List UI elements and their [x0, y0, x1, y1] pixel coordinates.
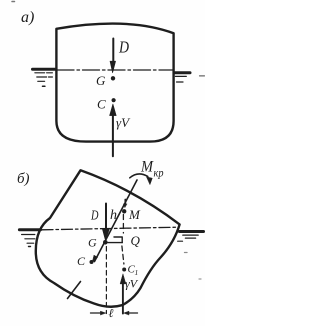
- buoyancy action line dashed M to Q: [122, 215, 124, 234]
- point C (figure b): [90, 260, 94, 264]
- tilted centerline through C G M: [95, 180, 138, 262]
- speck top edge: [12, 1, 15, 3]
- point M metacenter: [122, 209, 126, 213]
- svg-text:G: G: [88, 236, 97, 250]
- dashed line Q to C1: [122, 246, 124, 264]
- dashed drop line below G: [105, 247, 107, 314]
- svg-text:C: C: [97, 97, 106, 112]
- svg-text:D: D: [118, 38, 129, 57]
- heeling moment arc Mkr: [130, 174, 148, 178]
- hull outline (figure a): [56, 24, 173, 142]
- svg-text:М: М: [140, 159, 154, 176]
- svg-text:γV: γV: [125, 277, 139, 291]
- svg-text:ℓ: ℓ: [109, 306, 114, 320]
- point G (figure b): [103, 240, 108, 245]
- right angle mark at Q: [114, 237, 122, 243]
- svg-text:D: D: [90, 209, 98, 224]
- speck lower right: [199, 278, 201, 280]
- buoyancy force gammaV (figure a): [112, 115, 114, 157]
- dimension l left arrow: [91, 312, 102, 314]
- point C (figure a): [112, 98, 116, 102]
- point G (figure a): [111, 76, 115, 80]
- svg-text:γV: γV: [116, 115, 131, 130]
- water surface right (figure b): [179, 230, 203, 233]
- hatch right a: [175, 75, 186, 77]
- waterline dash-dot inside hull (figure a): [57, 69, 173, 71]
- buoyancy force gammaV (figure b): [122, 284, 124, 314]
- hull outline (figure b, heeled): [36, 170, 180, 306]
- svg-text:Q: Q: [131, 233, 141, 248]
- svg-text:C: C: [77, 254, 86, 268]
- tick mark on hull bottom left: [68, 282, 81, 299]
- water surface left (figure b): [19, 228, 40, 231]
- speck right of hull: [185, 252, 188, 254]
- force D (figure b): [105, 204, 107, 230]
- svg-text:M: M: [128, 207, 141, 222]
- hatch left a: [35, 72, 45, 74]
- svg-text:а): а): [21, 9, 34, 26]
- dimension l right arrow: [129, 312, 138, 314]
- arrowhead at C end: [92, 255, 98, 263]
- svg-text:б): б): [17, 171, 30, 187]
- svg-text:G: G: [96, 73, 106, 88]
- force D (figure a): [112, 39, 114, 63]
- water surface left (figure a): [33, 68, 56, 71]
- svg-text:кр: кр: [154, 168, 164, 180]
- svg-text:h: h: [110, 208, 117, 223]
- line G to Q: [108, 242, 123, 244]
- hatch right b: [183, 234, 198, 236]
- water surface right (figure a): [174, 71, 190, 74]
- waterline dash-dot inside hull (figure b): [42, 227, 178, 230]
- hatch left b: [22, 234, 35, 236]
- small arrow above M: [124, 200, 126, 205]
- point C1: [122, 268, 126, 272]
